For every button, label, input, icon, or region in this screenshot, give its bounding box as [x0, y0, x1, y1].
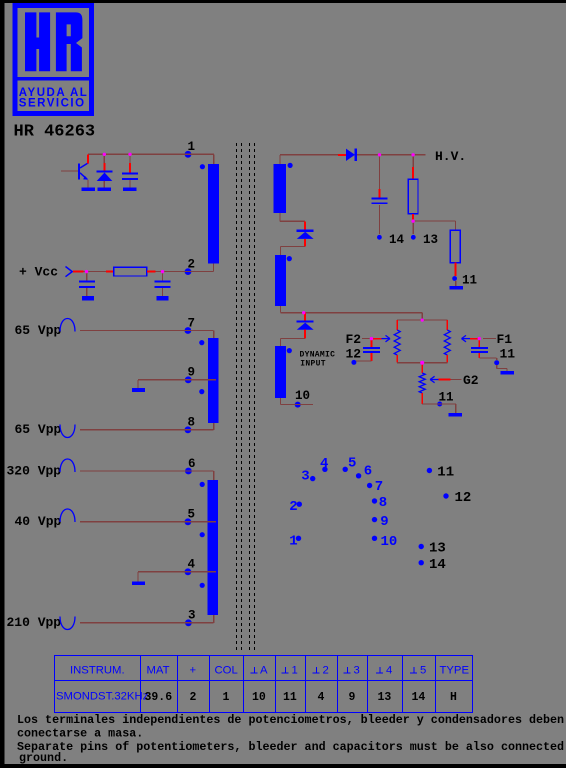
wire feed to bridge top: [421, 313, 423, 320]
wire pin5 row: [80, 521, 216, 523]
svg-text:2: 2: [188, 257, 196, 271]
waveform positive half (pin6): [60, 459, 75, 472]
label 65 Vpp (pin8): [15, 422, 62, 437]
wire Vcc red segment: [73, 271, 84, 273]
label DYNAMIC: [300, 350, 336, 359]
logo divider: [15, 77, 92, 80]
pin 13 label: [423, 233, 438, 247]
pin 11 terminal (focus): [494, 360, 499, 365]
wire W1 bottom to pin2 row: [73, 264, 214, 272]
table value 14: [412, 691, 426, 704]
svg-text:8: 8: [188, 416, 196, 430]
label 40 Vpp: [15, 514, 62, 529]
svg-text:conectarse a masa.: conectarse a masa.: [17, 726, 143, 740]
wire pin8 row: [80, 429, 214, 431]
pin 3 label: [188, 609, 196, 623]
pinout label 7: [375, 479, 383, 495]
pinout dot 10: [372, 536, 377, 541]
svg-text:8: 8: [379, 495, 387, 511]
waveform positive half (pin5): [60, 509, 75, 522]
node junction J8: [302, 311, 305, 314]
svg-text:3: 3: [301, 469, 309, 485]
svg-text:+: +: [190, 665, 197, 677]
svg-text:5: 5: [420, 665, 426, 677]
node junction J1: [103, 153, 106, 156]
wire red before D3: [338, 154, 346, 156]
winding W3 (pins 6-5-4-3): [208, 480, 218, 615]
arrow F1 wiper: [462, 335, 471, 341]
svg-text:INSTRUM.: INSTRUM.: [70, 665, 125, 677]
waveform negative half (pin3): [60, 617, 75, 630]
diode D3 (HV rectifier): [346, 149, 357, 161]
table header +: [190, 665, 197, 677]
polarity dot W2b: [199, 389, 204, 394]
svg-text:9: 9: [380, 514, 388, 530]
svg-text:INPUT: INPUT: [300, 359, 326, 368]
winding W1 (pins 1-2): [208, 164, 219, 264]
ground bar pin 4: [132, 582, 145, 586]
svg-text:10: 10: [381, 534, 398, 550]
label H.V.: [435, 149, 466, 164]
wire W6 bottom to pin10: [281, 398, 314, 405]
wire pin6 row: [80, 470, 214, 472]
table header perp-5: [410, 665, 426, 677]
pin 13 terminal: [411, 235, 416, 240]
table header perp-4: [376, 665, 392, 677]
pinout label 9: [380, 514, 388, 530]
arrow G2 wiper: [430, 376, 439, 382]
pin 1 label: [188, 140, 196, 154]
wire F1: [470, 338, 496, 340]
pinout dot 8: [372, 498, 377, 503]
svg-text:4: 4: [386, 665, 392, 677]
wire over pin 10: [290, 404, 306, 406]
pinout label 1: [289, 534, 297, 550]
bottom black border: [0, 764, 566, 768]
winding W6 (dynamic input): [275, 346, 286, 398]
logo text SERVICIO: [19, 97, 86, 109]
label F1: [497, 332, 513, 347]
label INPUT: [300, 359, 326, 368]
left black border: [0, 0, 5, 768]
svg-text:3: 3: [354, 665, 360, 677]
svg-text:ground.: ground.: [19, 751, 68, 765]
wire rail drop to winding: [213, 154, 215, 164]
ground bar under G2: [448, 413, 462, 417]
ground under D1: [98, 187, 112, 191]
svg-text:COL: COL: [215, 665, 238, 677]
diode D1: [97, 154, 113, 187]
table header COL: [215, 665, 238, 677]
ground under Q1: [82, 187, 96, 191]
table value 4: [318, 691, 325, 704]
svg-text:1: 1: [292, 665, 298, 677]
node junction J4: [161, 270, 164, 273]
label 320 Vpp: [7, 464, 62, 479]
svg-text:10: 10: [252, 691, 266, 704]
pin 12 label (focus): [346, 347, 362, 362]
node junction bridge top: [421, 319, 424, 322]
pinout dot 6: [356, 473, 361, 478]
svg-text:4: 4: [318, 691, 325, 704]
svg-text:A: A: [260, 665, 268, 677]
pinout dot 13: [419, 544, 424, 549]
svg-text:65 Vpp: 65 Vpp: [15, 422, 62, 437]
svg-text:12: 12: [455, 490, 472, 506]
svg-text:7: 7: [188, 316, 196, 330]
svg-text:14: 14: [429, 557, 446, 573]
top black border: [0, 0, 566, 3]
wire J7 to R3: [413, 221, 456, 230]
svg-text:14: 14: [389, 233, 405, 247]
pin 11 terminal (G2): [434, 402, 446, 407]
pin 11 label (HV bleeder): [462, 274, 477, 288]
svg-text:7: 7: [375, 479, 383, 495]
polarity dot W3c: [200, 583, 205, 588]
svg-text:320 Vpp: 320 Vpp: [7, 464, 62, 479]
bridge top wire: [397, 319, 447, 321]
transistor Q1: [61, 154, 88, 187]
svg-text:4: 4: [188, 558, 196, 572]
svg-text:14: 14: [412, 691, 426, 704]
wire W4 top to HV rail: [280, 155, 338, 164]
diode D5: [297, 313, 314, 339]
pin 5 label: [188, 508, 196, 522]
svg-text:13: 13: [378, 691, 392, 704]
svg-text:TYPE: TYPE: [440, 665, 470, 677]
ground bar under F1: [500, 371, 514, 375]
svg-text:MAT: MAT: [147, 665, 170, 677]
node junction J6: [411, 153, 414, 156]
svg-text:9: 9: [188, 365, 196, 379]
polarity dot W3b: [200, 532, 205, 537]
Vcc chevron: [66, 267, 73, 277]
table value 9: [349, 691, 356, 704]
label 210 Vpp: [7, 615, 62, 630]
polarity dot W3a: [200, 482, 205, 487]
pin 4 terminal: [181, 568, 195, 575]
HR logo frame: [15, 6, 92, 114]
pin 9 label: [188, 365, 196, 379]
svg-text:SERVICIO: SERVICIO: [19, 97, 86, 109]
capacitor C5: [355, 339, 380, 361]
waveform positive half (pin7): [60, 319, 75, 332]
svg-text:3: 3: [188, 609, 196, 623]
svg-text:1: 1: [289, 534, 297, 550]
pin 8 terminal: [181, 426, 195, 433]
svg-text:6: 6: [188, 457, 196, 471]
pinout dot 5: [343, 467, 348, 472]
wire over pin 2: [180, 271, 196, 273]
wire G2 red: [439, 379, 451, 381]
svg-text:39.6: 39.6: [145, 691, 173, 704]
svg-text:1: 1: [223, 691, 230, 704]
table header perp-1: [282, 665, 298, 677]
wire R6 to pin11: [422, 393, 456, 413]
svg-text:11: 11: [439, 390, 454, 404]
wire D5 to W6 top: [281, 338, 306, 346]
label 65 Vpp (pin7): [15, 323, 62, 338]
wire pin7 drop: [213, 331, 215, 339]
resistor R2: [408, 155, 418, 221]
svg-text:F2: F2: [346, 332, 362, 347]
wire pin11 to ground: [455, 281, 457, 286]
table value SMONDST.32KHz: [56, 691, 149, 703]
pin 11 label (G2): [439, 390, 454, 404]
bridge right side bottom: [446, 355, 448, 363]
wire pin9 tap: [138, 379, 216, 381]
focus resistor R5: [444, 330, 450, 355]
wire pin8 rise: [213, 423, 215, 430]
wire G2 label: [450, 379, 461, 381]
wire pin6 drop: [213, 471, 215, 481]
wire W4 bottom to D4: [280, 213, 305, 221]
pinout label 6: [364, 464, 372, 480]
svg-text:12: 12: [346, 347, 362, 362]
wire R3 to pin11: [455, 263, 457, 276]
svg-text:H: H: [450, 691, 457, 704]
svg-text:HR 46263: HR 46263: [14, 123, 96, 142]
wire D3 to HV: [357, 154, 426, 156]
ground bar pin 9: [132, 388, 145, 392]
pinout dot 4: [322, 467, 327, 472]
pin 10 terminal: [295, 402, 301, 408]
pin 3 terminal: [181, 619, 195, 626]
table header perp-A: [251, 665, 269, 677]
svg-text:G2: G2: [463, 373, 479, 388]
wire pin3 rise: [213, 615, 215, 623]
pinout dot 9: [372, 517, 377, 522]
winding W5 (HV mid): [275, 255, 286, 306]
pinout label 12: [455, 490, 472, 506]
ground bar under R3: [449, 286, 463, 290]
table value 2: [190, 691, 197, 704]
resistor R1: [114, 267, 147, 276]
pinout dot 3: [310, 476, 315, 481]
pin 7 label: [188, 316, 196, 330]
pinout dot 11: [427, 468, 432, 473]
wire pin4 tap: [138, 571, 216, 573]
table header MAT: [147, 665, 170, 677]
pin 4 label: [188, 558, 196, 572]
logo text AYUDA AL: [19, 87, 89, 99]
capacitor C6: [471, 339, 497, 360]
table value 11: [283, 691, 297, 704]
polarity dot W2a: [199, 340, 204, 345]
node junction J2: [128, 153, 131, 156]
svg-text:H.V.: H.V.: [435, 149, 466, 164]
wire D4 to W5 top: [281, 246, 306, 255]
svg-text:DYNAMIC: DYNAMIC: [300, 350, 336, 359]
wire over pin 1: [180, 153, 196, 155]
node junction J5: [378, 153, 381, 156]
wire pin3 row: [80, 622, 214, 624]
pinout dot 7: [367, 483, 372, 488]
pin 8 label: [188, 416, 196, 430]
pin 2 terminal: [185, 268, 192, 275]
polarity dot W1: [200, 164, 205, 169]
note line 3 (English): [17, 740, 564, 754]
svg-text:6: 6: [364, 464, 372, 480]
svg-text:2: 2: [289, 499, 297, 515]
svg-text:1: 1: [188, 140, 196, 154]
logo letter R: [56, 12, 83, 71]
pinout label 4: [320, 456, 328, 472]
wire red out of R1: [147, 271, 156, 273]
pinout dot 12: [443, 493, 448, 498]
node junction J3: [85, 270, 88, 273]
pin 14 terminal: [377, 235, 382, 240]
polarity dot W5: [287, 256, 292, 261]
table grid: [55, 656, 473, 713]
pinout dot 2: [297, 502, 302, 507]
capacitor C3: [155, 272, 171, 296]
svg-text:10: 10: [295, 389, 310, 403]
pin 1 terminal: [185, 151, 192, 158]
capacitor C4: [372, 155, 388, 234]
pin 6 terminal: [181, 468, 195, 475]
bridge bottom wire: [397, 362, 447, 364]
winding W2 (pins 7-9-8): [208, 338, 219, 423]
pin 11 label (focus): [500, 347, 516, 362]
wire F2 red to arrow: [371, 338, 381, 340]
arrow F2 wiper: [382, 335, 391, 341]
pinout dot 14: [419, 560, 424, 565]
focus resistor R4: [394, 330, 400, 355]
table value H: [450, 691, 457, 704]
note line 1 (Spanish): [17, 713, 564, 727]
capacitor C1: [122, 154, 138, 187]
table value 39.6: [145, 691, 173, 704]
node junction J7: [411, 219, 414, 222]
diode D4: [297, 221, 314, 246]
pinout label 5: [348, 456, 356, 472]
pinout label 13: [429, 540, 446, 556]
bridge left side bottom: [396, 355, 398, 363]
node junction bridge bottom: [420, 361, 424, 365]
table value 1: [223, 691, 230, 704]
svg-text:F1: F1: [497, 332, 513, 347]
bridge left side top: [396, 320, 398, 330]
svg-text:9: 9: [349, 691, 356, 704]
pinout label 10: [381, 534, 398, 550]
ground under C2: [82, 296, 94, 301]
pinout label 14: [429, 557, 446, 573]
pin 11 terminal (HV bleeder): [452, 276, 457, 281]
pin 7 terminal: [181, 327, 195, 334]
pinout label 11: [437, 465, 454, 481]
svg-text:13: 13: [423, 233, 438, 247]
svg-text:Los terminales independientes: Los terminales independientes de potenci…: [17, 713, 564, 727]
svg-text:11: 11: [500, 347, 516, 362]
ground under C1: [123, 187, 137, 191]
node junction F1: [478, 337, 481, 340]
table header perp-3: [344, 665, 360, 677]
logo letter H: [25, 12, 50, 71]
svg-text:4: 4: [320, 456, 328, 472]
pin 9 terminal: [181, 376, 195, 383]
pinout label 3: [301, 469, 309, 485]
table header perp-2: [313, 665, 329, 677]
svg-text:Separate pins of potentiometer: Separate pins of potentiometers, bleeder…: [17, 740, 564, 754]
pin 5 terminal: [181, 518, 195, 525]
svg-text:11: 11: [462, 274, 477, 288]
wire F2: [362, 338, 371, 340]
ground under C3: [156, 296, 168, 301]
pin 10 label: [295, 389, 310, 403]
wire pin9 to bar: [137, 380, 139, 388]
svg-text:40 Vpp: 40 Vpp: [15, 514, 62, 529]
label + Vcc: [19, 265, 58, 280]
wire red into R1: [106, 271, 114, 273]
svg-text:210 Vpp: 210 Vpp: [7, 615, 62, 630]
waveform negative half (pin8): [60, 425, 75, 438]
svg-text:65 Vpp: 65 Vpp: [15, 323, 62, 338]
svg-text:11: 11: [283, 691, 297, 704]
svg-text:+ Vcc: + Vcc: [19, 265, 58, 280]
wire bridge bottom to G2: [421, 363, 423, 373]
svg-text:2: 2: [323, 665, 329, 677]
wire collector rail: [88, 153, 214, 155]
pin 6 label: [188, 457, 196, 471]
polarity dot W4: [288, 163, 293, 168]
label F2: [346, 332, 362, 347]
note line 2 (Spanish): [17, 726, 143, 740]
svg-text:2: 2: [190, 691, 197, 704]
svg-text:5: 5: [188, 508, 196, 522]
wire pin7 row: [80, 330, 214, 332]
svg-text:13: 13: [429, 540, 446, 556]
bridge right side top: [446, 320, 448, 330]
table value 10: [252, 691, 266, 704]
svg-text:5: 5: [348, 456, 356, 472]
resistor R3: [450, 230, 460, 263]
title HR 46263: [14, 123, 96, 142]
svg-text:11: 11: [437, 465, 454, 481]
polarity dot W6: [287, 348, 292, 353]
pin 2 label: [188, 257, 196, 271]
transformer core: [237, 143, 255, 650]
wire pin4 to bar: [137, 572, 139, 582]
node junction F2: [370, 337, 373, 340]
table value 13: [378, 691, 392, 704]
table header INSTRUM.: [70, 665, 125, 677]
note line 4 (English): [19, 751, 68, 765]
pinout label 8: [379, 495, 387, 511]
table header TYPE: [440, 665, 470, 677]
capacitor C2: [79, 272, 95, 296]
winding W4 (HV top): [274, 164, 286, 213]
pinout label 2: [289, 499, 297, 515]
pin 14 label: [389, 233, 405, 247]
svg-text:SMONDST.32KHz: SMONDST.32KHz: [56, 691, 149, 703]
wire W5 bottom run: [281, 306, 423, 313]
screen resistor R6 (G2): [419, 373, 425, 393]
wire pin11 focus to ground: [497, 365, 507, 371]
wire J7 to pin13: [412, 221, 414, 234]
pin 12 terminal (focus): [351, 360, 356, 365]
label G2: [463, 373, 479, 388]
pinout dot 1: [296, 536, 301, 541]
